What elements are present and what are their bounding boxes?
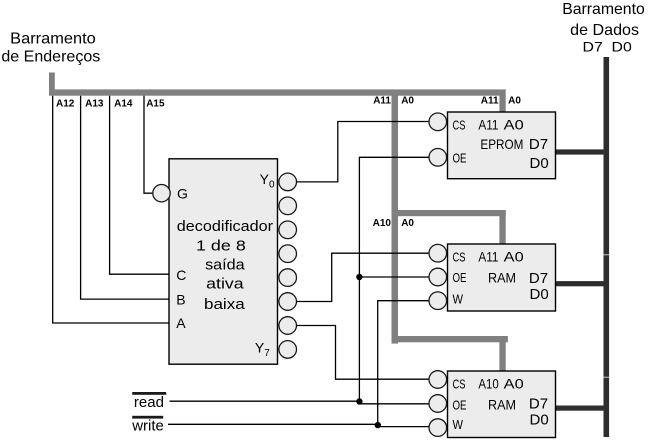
svg-text:A0: A0 xyxy=(504,376,524,392)
RAM U4 xyxy=(448,371,556,438)
decoder output bubble Y7 xyxy=(279,341,297,359)
svg-text:G: G xyxy=(177,186,188,202)
svg-text:A12: A12 xyxy=(56,99,75,110)
svg-text:D0: D0 xyxy=(530,411,549,428)
svg-text:OE: OE xyxy=(453,397,467,412)
read line xyxy=(170,401,430,404)
svg-text:D7: D7 xyxy=(529,136,548,153)
decoder output bubble Y6 xyxy=(279,317,297,335)
svg-text:RAM: RAM xyxy=(488,397,516,413)
svg-text:A11: A11 xyxy=(481,96,499,107)
svg-text:A15: A15 xyxy=(146,99,165,110)
svg-text:saída: saída xyxy=(205,257,245,274)
decoder output bubble Y4 xyxy=(279,269,297,287)
data connector RAM2 xyxy=(556,406,604,411)
data bus (thick black) xyxy=(604,57,610,437)
decoder output bubble Y0 xyxy=(279,173,297,191)
svg-text:A0: A0 xyxy=(401,96,414,107)
svg-text:OE: OE xyxy=(453,151,467,166)
svg-text:D0: D0 xyxy=(530,286,549,303)
EPROM U2 xyxy=(448,112,556,179)
svg-text:Barramento: Barramento xyxy=(562,1,645,18)
svg-text:A0: A0 xyxy=(504,248,524,264)
svg-text:CS: CS xyxy=(453,377,466,392)
svg-text:B: B xyxy=(176,292,185,308)
junction RAM1 OE branch xyxy=(356,274,362,280)
svg-text:read: read xyxy=(134,394,164,411)
svg-text:OE: OE xyxy=(453,270,467,285)
RAM2 W bubble xyxy=(429,419,447,437)
svg-text:decodificador: decodificador xyxy=(177,218,273,235)
decoder output bubble Y1 xyxy=(279,197,297,215)
wire A15 to decoder input G xyxy=(144,96,153,194)
RAM2 OE bubble xyxy=(429,395,447,413)
svg-text:A0: A0 xyxy=(401,218,414,229)
EPROM CS bubble xyxy=(429,113,447,131)
svg-text:A13: A13 xyxy=(85,99,104,110)
wire A13 to decoder input B xyxy=(81,96,169,299)
decoder output bubble Y2 xyxy=(279,221,297,239)
RAM1 CS bubble xyxy=(429,244,447,262)
svg-text:write: write xyxy=(131,418,164,435)
svg-text:D7 D0: D7 D0 xyxy=(583,38,633,54)
svg-text:baixa: baixa xyxy=(204,296,245,313)
wire branch to RAM1 OE xyxy=(359,276,429,278)
decoder U1 xyxy=(169,159,278,364)
address bus branch A10-A0 to RAM2 xyxy=(392,336,508,372)
svg-text:A11: A11 xyxy=(478,248,498,264)
svg-text:A11: A11 xyxy=(373,96,391,107)
svg-text:1 de 8: 1 de 8 xyxy=(196,237,246,254)
svg-text:de Dados: de Dados xyxy=(570,22,639,39)
svg-text:RAM: RAM xyxy=(488,269,516,285)
svg-text:Barramento: Barramento xyxy=(10,31,96,48)
svg-text:A0: A0 xyxy=(504,117,524,133)
svg-text:A10: A10 xyxy=(373,218,392,229)
svg-text:A14: A14 xyxy=(114,99,133,110)
svg-text:A11: A11 xyxy=(478,117,498,133)
decoder input bubble G xyxy=(153,185,170,202)
svg-text:CS: CS xyxy=(453,249,466,264)
write label xyxy=(131,416,164,435)
svg-text:C: C xyxy=(176,267,186,283)
wire EPROM OE to read line xyxy=(359,157,429,402)
wire Y5 to RAM1 CS xyxy=(296,253,429,301)
data connector EPROM xyxy=(556,149,604,154)
data bus title xyxy=(562,1,645,55)
address bus title xyxy=(1,31,100,66)
svg-text:D7: D7 xyxy=(529,396,548,413)
RAM U3 xyxy=(448,244,556,311)
junction read line xyxy=(356,398,362,404)
svg-text:W: W xyxy=(453,417,464,432)
svg-text:D7: D7 xyxy=(529,270,548,287)
EPROM OE bubble xyxy=(429,149,447,167)
svg-text:ativa: ativa xyxy=(206,276,244,293)
wire A12 to decoder input A xyxy=(53,96,169,323)
data connector RAM1 xyxy=(556,281,604,286)
svg-text:A0: A0 xyxy=(508,96,521,107)
svg-text:EPROM: EPROM xyxy=(480,136,523,152)
wire Y0 to EPROM CS xyxy=(296,122,429,182)
svg-text:CS: CS xyxy=(453,118,466,133)
svg-text:A10: A10 xyxy=(478,376,499,392)
svg-text:A: A xyxy=(176,315,186,331)
decoder output bubble Y5 xyxy=(279,293,297,311)
wire A14 to decoder input C xyxy=(110,96,169,275)
svg-text:D0: D0 xyxy=(530,155,549,172)
svg-text:de Endereços: de Endereços xyxy=(1,49,100,66)
write line xyxy=(168,424,429,426)
RAM2 CS bubble xyxy=(429,371,447,389)
wire Y6 to RAM2 CS xyxy=(296,326,429,380)
decoder output bubble Y3 xyxy=(279,245,297,263)
wire RAM1 W to write line xyxy=(378,301,430,426)
address bus branch A11-A0 to RAM1 xyxy=(392,210,506,245)
RAM1 W bubble xyxy=(429,292,447,310)
address bus (thick gray) xyxy=(49,73,506,96)
svg-text:W: W xyxy=(453,292,464,307)
address bus branch A11-A0 to EPROM xyxy=(499,95,505,113)
RAM1 OE bubble xyxy=(429,268,447,286)
junction write line xyxy=(375,422,381,428)
address bus vertical A11/A10 trunk xyxy=(392,95,399,344)
read label xyxy=(132,392,166,411)
